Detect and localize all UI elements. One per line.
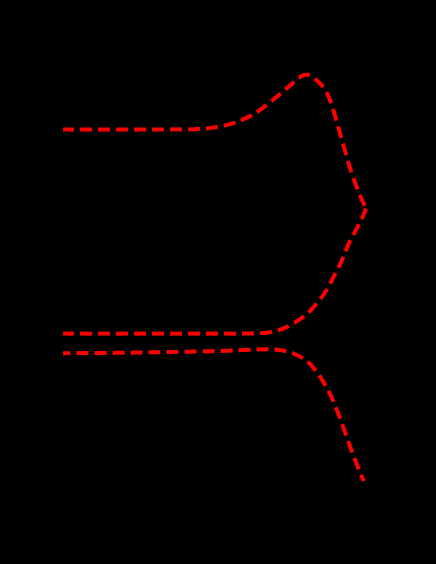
lower branch: flat level bending down into steep descent xyxy=(63,349,364,481)
upper branch: flat level, barrier peak, descent to right fold xyxy=(63,75,366,209)
middle branch: flat level rising into fold from below xyxy=(63,209,366,334)
